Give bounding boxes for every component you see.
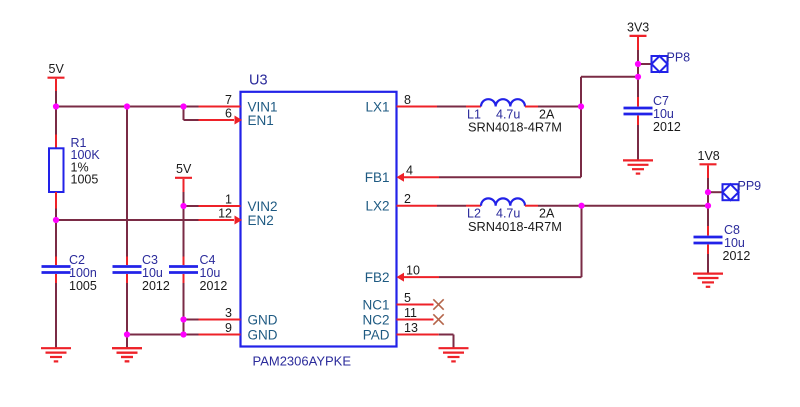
svg-text:1: 1 xyxy=(225,193,232,207)
svg-text:5V: 5V xyxy=(49,62,65,76)
svg-text:9: 9 xyxy=(225,321,232,335)
capacitor C7 xyxy=(624,97,653,160)
svg-text:FB1: FB1 xyxy=(365,170,390,185)
resistor R1 xyxy=(49,135,64,209)
ground (C2) xyxy=(41,348,71,361)
wire col C upper xyxy=(183,192,185,257)
svg-text:LX1: LX1 xyxy=(365,99,389,114)
svg-text:1005: 1005 xyxy=(69,279,97,293)
wire col A mid xyxy=(55,209,57,257)
wire L2 out xyxy=(538,205,708,207)
svg-text:PAD: PAD xyxy=(363,327,390,342)
wire L1 out xyxy=(538,106,581,108)
svg-text:7: 7 xyxy=(225,93,232,107)
junction dot 11 at (638,76.8) xyxy=(635,74,641,80)
pin 7 VIN1 xyxy=(199,93,278,114)
junction dot 2 at (127,106.5) xyxy=(124,103,130,109)
wire GND9 xyxy=(127,334,199,336)
wire LX1 to L1 xyxy=(437,106,466,108)
no-connect X NC1 xyxy=(433,299,443,309)
svg-text:8: 8 xyxy=(404,93,411,107)
pin 3 GND xyxy=(199,306,278,327)
no-connect X NC2 xyxy=(433,314,443,324)
pin 11 NC2 xyxy=(362,306,433,327)
junction dot 5 at (56,220) xyxy=(53,217,59,223)
svg-text:2012: 2012 xyxy=(200,279,228,293)
svg-text:12: 12 xyxy=(218,207,232,221)
svg-text:2012: 2012 xyxy=(142,279,170,293)
svg-text:1005: 1005 xyxy=(71,172,99,186)
wire EN1 drop xyxy=(184,107,199,121)
ground (C8) xyxy=(693,274,723,287)
junction dot 1 at (56,106.5) xyxy=(53,103,59,109)
svg-text:C3: C3 xyxy=(142,253,158,267)
testpoint PP8 xyxy=(652,51,691,73)
ground (C3) xyxy=(112,348,142,361)
junction dot 8 at (127,334.5) xyxy=(124,331,130,337)
inductor L1 xyxy=(466,99,538,106)
junction dot 13 at (708,192.2) xyxy=(705,189,711,195)
svg-text:GND: GND xyxy=(248,327,278,342)
capacitor C4 xyxy=(169,257,198,284)
svg-text:10u: 10u xyxy=(724,236,745,250)
pin 1 VIN2 xyxy=(199,193,278,214)
label C4 xyxy=(200,253,228,293)
pin 13 PAD xyxy=(363,321,439,342)
wire 3V3 col xyxy=(638,50,652,97)
capacitor C2 xyxy=(42,257,71,284)
svg-text:5: 5 xyxy=(404,291,411,305)
svg-text:EN1: EN1 xyxy=(248,113,274,128)
svg-text:3V3: 3V3 xyxy=(627,21,649,35)
power 5V (left) xyxy=(48,62,65,92)
svg-text:2: 2 xyxy=(404,192,411,206)
svg-text:C2: C2 xyxy=(69,253,85,267)
label L2 xyxy=(467,207,562,234)
pin 8 LX1 xyxy=(365,93,437,114)
wire PAD to ground xyxy=(439,335,454,349)
wire col B lower xyxy=(126,283,128,348)
wire FB1 horiz xyxy=(439,176,581,178)
svg-text:NC1: NC1 xyxy=(362,297,389,312)
label C2 xyxy=(69,253,97,293)
svg-text:C8: C8 xyxy=(724,223,740,237)
label C7 xyxy=(653,94,681,134)
svg-text:2012: 2012 xyxy=(723,249,751,263)
svg-text:NC2: NC2 xyxy=(362,312,389,327)
svg-text:10u: 10u xyxy=(142,266,163,280)
wire col A lower xyxy=(55,283,57,348)
svg-text:PP9: PP9 xyxy=(738,179,762,193)
label C3 xyxy=(142,253,170,293)
junction dot 14 at (708,205.7) xyxy=(705,203,711,209)
op-amp U3 body xyxy=(241,92,397,347)
svg-text:13: 13 xyxy=(404,321,418,335)
pin 6 EN1 xyxy=(199,107,274,128)
svg-text:C7: C7 xyxy=(653,94,669,108)
label C8 xyxy=(723,223,751,263)
svg-text:10u: 10u xyxy=(200,266,221,280)
label L1 xyxy=(467,107,562,134)
svg-text:LX2: LX2 xyxy=(365,199,389,214)
label R1 xyxy=(71,136,101,186)
wire FB2 vertical xyxy=(581,206,583,277)
svg-text:1V8: 1V8 xyxy=(698,149,720,163)
svg-text:4: 4 xyxy=(406,164,413,178)
svg-text:VIN2: VIN2 xyxy=(248,199,278,214)
svg-text:EN2: EN2 xyxy=(248,213,274,228)
ground (GND9 col) xyxy=(112,348,142,361)
testpoint PP9 xyxy=(723,179,762,200)
svg-text:FB2: FB2 xyxy=(365,270,390,285)
wire 5V rail xyxy=(56,106,199,108)
wire GND3 xyxy=(184,319,199,321)
svg-text:100n: 100n xyxy=(69,266,97,280)
pin 9 GND xyxy=(199,321,278,342)
junction dot 3 at (183.5,106.5) xyxy=(180,103,186,109)
svg-text:10: 10 xyxy=(406,264,420,278)
svg-text:3: 3 xyxy=(225,306,232,320)
power 5V (middle) xyxy=(175,162,192,192)
svg-text:PAM2306AYPKE: PAM2306AYPKE xyxy=(253,354,352,369)
power 3V3 xyxy=(627,21,649,51)
wire col B upper xyxy=(126,107,128,257)
pin 5 NC1 xyxy=(362,291,433,312)
wire FB2 horiz xyxy=(439,276,582,278)
svg-text:2012: 2012 xyxy=(653,120,681,134)
wire 1V8 col xyxy=(708,178,723,226)
junction dot 12 at (581.5,205.7) xyxy=(578,203,584,209)
capacitor C3 xyxy=(113,257,142,284)
svg-text:11: 11 xyxy=(404,306,417,320)
junction dot 10 at (638,64) xyxy=(635,61,641,67)
pin 4 FB1 xyxy=(365,164,439,185)
wire VIN2 stub xyxy=(184,205,199,207)
wire LX2 to L2 xyxy=(437,205,466,207)
wire FB1 vertical xyxy=(581,77,638,177)
wire EN2 rail xyxy=(56,219,199,221)
wire 5V col A upper xyxy=(55,91,57,135)
svg-text:C4: C4 xyxy=(200,253,216,267)
svg-text:GND: GND xyxy=(248,312,278,327)
junction dot 7 at (183.5,334.5) xyxy=(180,331,186,337)
pin 2 LX2 xyxy=(365,192,437,213)
power 1V8 xyxy=(698,149,720,178)
svg-text:U3: U3 xyxy=(249,73,268,89)
inductor L2 xyxy=(466,198,538,205)
pin 10 FB2 xyxy=(365,264,439,285)
ground (C7) xyxy=(623,160,653,173)
pin 12 EN2 xyxy=(199,207,274,228)
svg-text:SRN4018-4R7M: SRN4018-4R7M xyxy=(468,120,562,135)
junction dot 4 at (183.5,206) xyxy=(180,203,186,209)
svg-text:5V: 5V xyxy=(176,162,192,176)
svg-text:10u: 10u xyxy=(653,107,674,121)
svg-text:PP8: PP8 xyxy=(667,51,691,65)
ground (PAD) xyxy=(439,348,469,361)
svg-text:SRN4018-4R7M: SRN4018-4R7M xyxy=(468,219,562,234)
junction dot 6 at (183.5,319.5) xyxy=(180,316,186,322)
capacitor C8 xyxy=(694,226,723,274)
junction dot 9 at (581,106.5) xyxy=(578,103,584,109)
svg-text:6: 6 xyxy=(225,107,232,121)
wire col C lower xyxy=(183,283,185,335)
